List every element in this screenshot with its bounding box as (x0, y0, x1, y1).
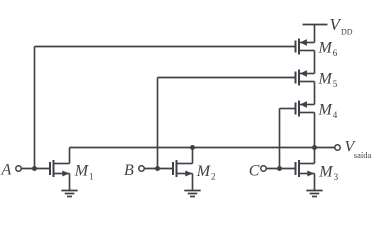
svg-text:M: M (74, 163, 90, 180)
svg-text:M: M (196, 163, 212, 180)
wire series rail M6-M5 (314, 51, 316, 74)
svg-text:C: C (249, 162, 260, 179)
svg-text:5: 5 (333, 79, 338, 89)
ground below M1 (61, 191, 77, 197)
node A junction dot (32, 166, 37, 171)
wire net A: input stub (21, 168, 50, 170)
wire net B: vertical riser (157, 78, 159, 169)
node output dot above M2 (190, 145, 195, 150)
svg-text:4: 4 (333, 110, 338, 120)
wire VDD bar (303, 24, 328, 26)
wire M2 drain riser (192, 148, 194, 164)
terminal Vsaida (open circle) (335, 145, 340, 150)
svg-text:2: 2 (211, 172, 216, 182)
wire net C: vertical riser (279, 109, 281, 169)
svg-text:DD: DD (341, 28, 353, 37)
wire M4 drain to output node and M3 drain (314, 113, 316, 164)
wire M2 source to ground (192, 174, 194, 191)
wire VDD stem to M6 source (314, 25, 316, 43)
wire M1 source to ground (69, 174, 71, 191)
wire net B: horizontal run to M5 gate (158, 77, 296, 79)
node B junction dot (155, 166, 160, 171)
wire net C: input stub (266, 168, 295, 170)
wire M1 drain riser (69, 148, 71, 164)
node C junction dot (277, 166, 282, 171)
svg-text:1: 1 (89, 171, 94, 181)
transistor M4 (PMOS) (296, 101, 315, 117)
ground below M3 (306, 191, 322, 197)
wire net A: vertical riser (34, 47, 36, 169)
transistor M5 (PMOS) (296, 70, 315, 86)
terminal A (open circle) (16, 166, 21, 171)
terminal C (open circle) (261, 166, 266, 171)
transistor M2 (NMOS) (173, 160, 193, 177)
wire output line (70, 147, 335, 149)
svg-text:6: 6 (333, 48, 338, 58)
svg-text:A: A (1, 161, 12, 178)
svg-text:M: M (318, 39, 334, 56)
svg-text:M: M (318, 101, 334, 118)
svg-text:M: M (318, 163, 334, 180)
svg-text:M: M (318, 70, 334, 87)
wire net B: input stub (144, 168, 173, 170)
terminal B (open circle) (139, 166, 144, 171)
node output dot at M4/M3 drains (312, 145, 317, 150)
wire net A: horizontal run to M6 gate (35, 46, 296, 48)
wire net C: horizontal run to M4 gate (280, 108, 296, 110)
svg-text:B: B (124, 162, 134, 179)
transistor M3 (NMOS) (296, 160, 315, 177)
ground below M2 (184, 191, 200, 197)
transistor M1 (NMOS) (50, 160, 70, 177)
wire series rail M5-M4 (314, 82, 316, 105)
wire M3 source to ground (314, 174, 316, 191)
transistor M6 (PMOS) (296, 39, 315, 55)
svg-text:saída: saída (354, 150, 372, 160)
svg-text:3: 3 (334, 172, 339, 182)
